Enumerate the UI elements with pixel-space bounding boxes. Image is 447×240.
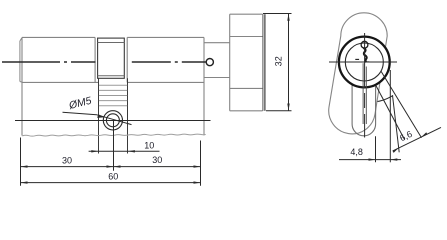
svg-text:10: 10	[144, 140, 154, 150]
dimension 32 line	[288, 14, 290, 111]
profile web below face circle	[352, 84, 376, 136]
housing face circle (bold)	[339, 37, 390, 88]
svg-text:30: 30	[152, 155, 162, 165]
M5 hole outer circle	[103, 111, 122, 130]
svg-text:30: 30	[62, 155, 72, 165]
extension line middle (30/30 junction)	[113, 121, 115, 171]
dimension 10 line	[89, 150, 160, 152]
extension line right (60/30)	[200, 141, 202, 186]
leader line for M5	[63, 112, 132, 124]
cam section rectangle	[98, 38, 125, 78]
vertical centerline of end view	[364, 33, 366, 138]
keyway channel lines below	[362, 63, 364, 124]
dimension 30 right line	[114, 166, 201, 168]
thread lines	[99, 85, 127, 105]
dimension 60 line	[21, 182, 201, 184]
dimension 6,6 line	[393, 127, 441, 150]
half-joint verticals beside cam section	[95, 37, 127, 82]
knob outline	[230, 14, 263, 111]
slanted edge line from circle (upper)	[381, 71, 422, 138]
dimension 32 extension lines	[263, 14, 292, 111]
dimension 60 arrows	[21, 181, 28, 183]
arc detail lower right of circle	[378, 95, 394, 101]
M5 hole axis line	[15, 120, 211, 122]
horizontal centerline of end view	[329, 61, 397, 63]
knob face edge lines	[262, 14, 264, 111]
cylinder body outline (side view)	[22, 37, 204, 135]
dimension 10 arrows	[91, 150, 98, 152]
dimension 30 left arrows	[21, 165, 28, 167]
dimension 4,8 extension lines	[376, 70, 391, 162]
dimension 30 right arrows	[114, 165, 121, 167]
dimension 4,8 arrows	[369, 158, 376, 160]
M5 hole inner circle	[106, 114, 119, 127]
thread section edges	[99, 78, 128, 153]
svg-text:4,8: 4,8	[350, 147, 363, 157]
neck between body and knob	[204, 43, 230, 78]
keyway paracentric wiggle	[364, 48, 367, 62]
dimension 4,8 line	[339, 159, 401, 161]
dimension 6,6 arrows	[393, 148, 399, 153]
dimension 30 left line	[21, 166, 114, 168]
slanted edge line from circle (lower)	[376, 86, 405, 140]
plug circle	[345, 43, 383, 81]
thumbturn knob silhouette (tilted capsule)	[329, 13, 387, 134]
label ØM5	[67, 95, 93, 112]
pin hole circle on neck	[206, 59, 213, 66]
cylinder left end face line	[20, 38, 22, 83]
main centerline (axis), left of cam	[2, 61, 96, 63]
cam section inner lines	[98, 42, 125, 44]
extension line left (60/30)	[20, 138, 22, 186]
keyway bottom nubs	[355, 58, 359, 60]
break line (wavy)	[22, 134, 205, 136]
dimension 6,6 text	[398, 129, 414, 143]
main centerline (axis), right of cam	[132, 61, 206, 63]
steep edge line	[393, 95, 400, 152]
dimension 32 arrows	[287, 14, 289, 21]
keyway bulb	[361, 41, 368, 48]
svg-text:32: 32	[274, 56, 284, 66]
svg-text:60: 60	[108, 171, 118, 181]
leader arrow	[97, 114, 105, 118]
